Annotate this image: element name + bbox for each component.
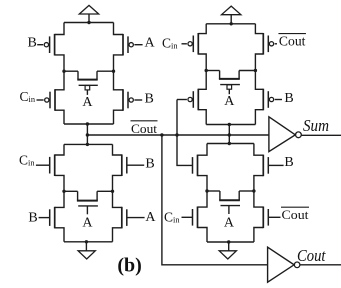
wire gate lead P2 [134,44,142,46]
svg-text:B: B [145,92,154,107]
svg-text:B: B [145,156,154,171]
wire Cout-bar to N6 gate [177,135,193,165]
wire mid rail left [64,190,78,192]
wire mid rail right [97,190,112,192]
label Cout-bar [278,34,306,49]
junction top rail [86,143,89,146]
wire bottom rail [207,241,254,243]
transistor P4 (gate Cin) [45,71,64,124]
svg-text:B: B [284,91,293,106]
wire ground stub [85,242,87,251]
svg-text:B: B [28,36,37,51]
svg-text:Cout: Cout [279,34,306,49]
wire top rail [207,143,254,145]
wire gate lead N10 [268,216,280,218]
wire Cout-bar to P9 gate [176,100,178,136]
svg-text:A: A [224,94,235,109]
junction spine right [228,133,231,136]
svg-text:A: A [145,210,156,225]
wire gate lead N2 [127,164,144,166]
wire spine left [86,124,88,144]
transistor P2 (gate A) [114,23,134,72]
wire bottom rail [64,123,114,125]
svg-text:B: B [284,155,293,170]
ground symbol (right) [219,251,236,259]
wire gate lead P9 [177,99,187,101]
transistor N1 (gate Cin) [50,144,64,191]
transistor N8 (gate A, series) [219,191,240,214]
wire Cout-bar bus to Sum inverter [87,134,269,136]
wire gate lead N7 [268,164,283,166]
junction top rail [228,142,231,145]
transistor P7 (gate Cout-bar) [255,24,273,71]
transistor N2 (gate B) [113,144,127,191]
power VDD symbol (left) [79,5,98,14]
svg-text:Cout: Cout [131,121,157,136]
wire ground stub [228,242,230,251]
junction [228,123,231,126]
wire gate lead P7 [275,43,277,45]
svg-text:A: A [224,215,235,230]
junction mid rail right [111,190,114,193]
junction mid rail right [112,70,115,73]
inverter U2 (Cout) [268,247,300,282]
transistor P5 (gate B) [114,71,134,124]
junction VDD/rail [230,22,233,25]
ground symbol (left) [78,251,95,259]
wire top rail [64,22,114,24]
transistor N6 (gate Cout-bar node) [193,144,208,192]
wire Sum output [301,134,341,136]
wire mid rail right [239,70,255,72]
junction mid rail right [254,69,257,72]
wire gate lead P4 [37,99,44,101]
transistor N3 (gate A, series) [77,191,98,214]
wire gate lead P10 [275,99,282,101]
svg-text:A: A [82,216,93,231]
wire bottom rail [64,241,113,243]
wire gate lead N4 [39,217,50,219]
transistor N10 (gate Cout-bar) [254,191,268,242]
junction branch to Cout inverter [160,133,163,136]
wire gate lead P5 [134,99,142,101]
junction branch to gates [175,133,178,136]
wire gate lead P6 [182,43,187,45]
junction mid rail right [252,189,255,192]
junction Cout-bar top [86,122,89,125]
wire Cout-bar down to Cout inverter [162,135,268,265]
svg-text:A: A [82,95,93,110]
svg-text:Sum: Sum [303,116,329,135]
wire VDD stub [230,15,232,24]
transistor P10 (gate B) [255,71,273,125]
transistor P8 (gate A, series) [219,71,240,95]
transistor P9 (gate Cout-bar node) [188,71,206,125]
label Cout-bar [281,207,309,222]
wire gate lead P1 [37,44,43,46]
svg-text:A: A [145,36,156,51]
wire spine right [228,125,230,144]
wire mid rail right [239,190,254,192]
junction mid rail left [62,190,65,193]
wire gate lead N1 [36,164,50,166]
svg-text:(b): (b) [117,255,141,277]
junction mid rail left [205,69,208,72]
wire bottom rail [206,124,255,126]
node Cout-bar [86,133,89,136]
transistor N4 (gate B) [50,191,64,242]
junction VDD/rail [87,21,90,24]
power VDD symbol (right) [222,6,241,15]
transistor N9 (gate Cin) [193,191,208,242]
label Cout-bar (node) [131,121,158,136]
transistor N5 (gate A) [113,191,127,242]
transistor P6 (gate Cin) [188,24,206,71]
wire VDD stub [88,14,90,23]
wire top rail [206,23,255,25]
junction mid rail left [205,189,208,192]
transistor P3 (gate A, series) [77,71,98,95]
junction mid rail left [62,70,65,73]
inverter U1 (Sum) [269,117,301,152]
svg-text:B: B [28,211,37,226]
transistor P1 (gate B) [44,23,64,72]
transistor N7 (gate B) [254,144,268,192]
wire mid rail left [64,70,78,72]
wire mid rail left [207,190,220,192]
wire gate lead N9 [182,216,193,218]
wire mid rail right [97,70,114,72]
wire top rail [64,143,113,145]
wire gate lead N5 [127,217,145,219]
junction ground [227,240,230,243]
wire Cout output [300,264,341,266]
svg-text:Cout: Cout [282,207,309,222]
svg-text:Cout: Cout [297,246,326,265]
wire mid rail left [206,70,219,72]
junction ground [85,240,88,243]
